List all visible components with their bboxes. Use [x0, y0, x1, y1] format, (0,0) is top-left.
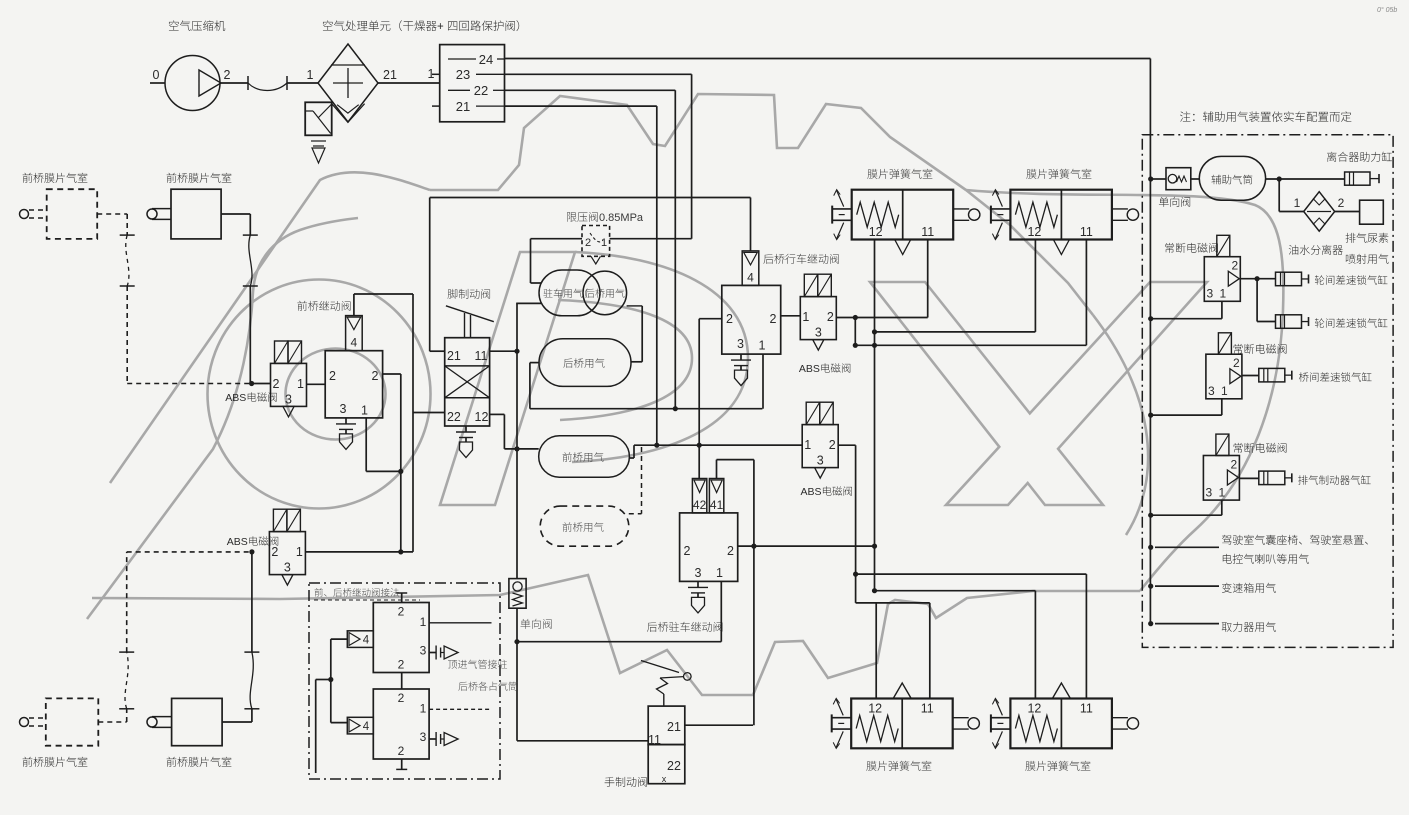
svg-text:3: 3: [420, 730, 427, 744]
svg-text:3: 3: [340, 402, 347, 416]
svg-text:12: 12: [868, 702, 882, 716]
svg-text:1: 1: [420, 702, 427, 716]
svg-text:4: 4: [363, 635, 370, 647]
svg-text:2: 2: [684, 544, 691, 558]
svg-text:11: 11: [1080, 225, 1093, 239]
svg-text:22: 22: [667, 759, 681, 773]
svg-text:x: x: [662, 774, 667, 784]
svg-text:2: 2: [398, 658, 405, 672]
svg-text:12: 12: [475, 410, 489, 424]
svg-text:3: 3: [1208, 384, 1215, 398]
svg-text:12: 12: [1027, 702, 1041, 716]
svg-text:1: 1: [804, 438, 811, 452]
svg-text:0° 05b: 0° 05b: [1377, 6, 1397, 14]
svg-text:11: 11: [1080, 702, 1093, 716]
svg-text:24: 24: [479, 52, 493, 67]
svg-text:ABS: ABS: [801, 486, 822, 498]
svg-text:22: 22: [447, 410, 461, 424]
svg-text:+: +: [437, 21, 444, 33]
svg-text:12: 12: [1027, 225, 1041, 239]
svg-text:1: 1: [716, 566, 723, 580]
svg-text:2: 2: [224, 68, 231, 82]
svg-text:3: 3: [284, 561, 291, 575]
svg-text:11: 11: [648, 733, 661, 747]
svg-text:2: 2: [827, 310, 834, 324]
svg-text:2: 2: [398, 691, 405, 705]
svg-text:2: 2: [727, 544, 734, 558]
svg-text:1: 1: [759, 339, 766, 353]
svg-text:2: 2: [829, 438, 836, 452]
svg-text:3: 3: [737, 337, 744, 351]
svg-text:1: 1: [296, 545, 303, 559]
svg-text:ABS: ABS: [227, 536, 248, 548]
svg-text:3: 3: [695, 566, 702, 580]
svg-text:2: 2: [398, 744, 405, 758]
svg-text:11: 11: [921, 225, 934, 239]
svg-text:1: 1: [601, 237, 607, 249]
svg-text:2: 2: [329, 369, 336, 383]
svg-text:0.85MPa: 0.85MPa: [599, 212, 644, 224]
svg-text:21: 21: [456, 99, 470, 114]
svg-text:2: 2: [770, 312, 777, 326]
svg-text:1: 1: [307, 68, 314, 82]
svg-text:ABS: ABS: [225, 392, 246, 404]
svg-text:2: 2: [273, 377, 280, 391]
svg-text:1: 1: [420, 615, 427, 629]
svg-text:12: 12: [869, 225, 883, 239]
svg-text:2: 2: [1233, 356, 1240, 370]
svg-text:4: 4: [363, 721, 370, 733]
svg-text:1: 1: [297, 377, 304, 391]
svg-text:11: 11: [475, 349, 488, 363]
svg-text:41: 41: [710, 498, 724, 512]
svg-text:2: 2: [271, 545, 278, 559]
svg-text:ABS: ABS: [799, 363, 820, 375]
svg-text:21: 21: [383, 68, 397, 82]
svg-text:2: 2: [1231, 458, 1238, 472]
svg-text:1: 1: [1221, 384, 1228, 398]
svg-text:1: 1: [1219, 287, 1226, 301]
svg-text:4: 4: [747, 270, 754, 284]
svg-text:1: 1: [802, 310, 809, 324]
svg-text:3: 3: [815, 326, 822, 340]
svg-text:22: 22: [474, 83, 488, 98]
svg-text:2: 2: [585, 237, 591, 249]
svg-text:42: 42: [693, 498, 707, 512]
svg-text:3: 3: [1206, 287, 1213, 301]
svg-text:2: 2: [398, 605, 405, 619]
svg-text:21: 21: [667, 720, 681, 734]
svg-text:3: 3: [285, 392, 292, 406]
svg-text:1: 1: [361, 404, 368, 418]
svg-text:2: 2: [1231, 259, 1238, 273]
svg-text:4: 4: [351, 336, 358, 350]
svg-text:2: 2: [372, 369, 379, 383]
svg-text:3: 3: [1206, 486, 1213, 500]
svg-text:2: 2: [1338, 196, 1345, 210]
svg-text:0: 0: [153, 68, 160, 82]
svg-text:3: 3: [420, 644, 427, 658]
svg-text:1: 1: [1294, 196, 1301, 210]
svg-text:1: 1: [1219, 486, 1226, 500]
svg-text:11: 11: [921, 702, 934, 716]
svg-text:3: 3: [817, 454, 824, 468]
svg-text:2: 2: [726, 312, 733, 326]
svg-text:23: 23: [456, 67, 470, 82]
svg-text:21: 21: [447, 349, 461, 363]
